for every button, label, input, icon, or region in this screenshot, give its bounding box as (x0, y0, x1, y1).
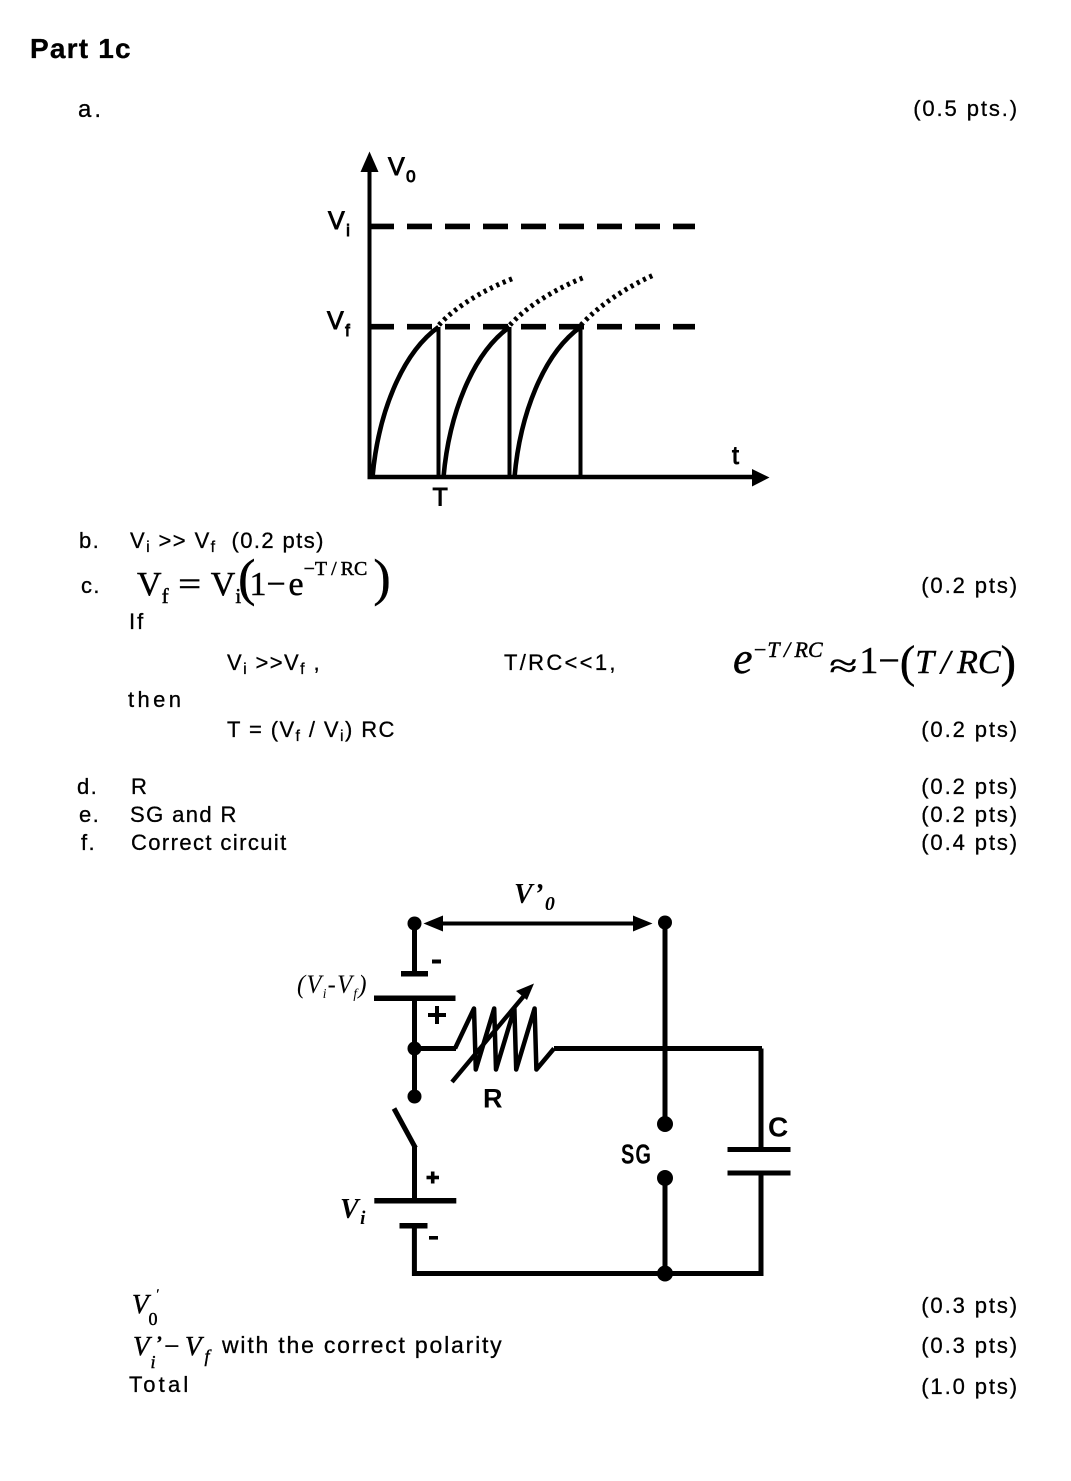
svg-text:Vi: Vi (328, 207, 351, 240)
wire down to capacitor (759, 1049, 764, 1148)
battery B2 Vi long plate (positive) (374, 1198, 456, 1204)
wire spark-gap branch from top-right node (663, 928, 668, 1124)
svg-text:Vi: Vi (340, 1194, 367, 1229)
wire battery B1 to node A (412, 1001, 417, 1049)
plus sign B1 (428, 1006, 446, 1024)
spark gap SG top electrode (657, 1116, 673, 1132)
svg-text:T: T (433, 484, 450, 512)
t axis (horizontal) (368, 469, 770, 487)
wire node A down to switch (412, 1049, 417, 1097)
drop line 1 (437, 327, 441, 477)
V'0 measurement double arrow (424, 916, 653, 932)
svg-text:Vf: Vf (327, 307, 351, 340)
wire SG to bottom rail (663, 1178, 668, 1274)
minus sign B1 (432, 960, 441, 964)
charging curve 3 (515, 327, 581, 477)
wire battery B2 to bottom rail (412, 1228, 417, 1276)
minus sign B2 (429, 1236, 438, 1240)
Vf dashed level line (369, 324, 695, 330)
Vi dashed level line (369, 224, 695, 230)
condition row (227, 650, 321, 679)
charging curve 1 (373, 327, 439, 477)
capacitor C top plate (728, 1147, 791, 1152)
wire top-left down to battery B1 (412, 928, 417, 971)
charging curve 2 (444, 327, 510, 477)
T = (Vf/Vi) RC (227, 717, 396, 746)
drop line 3 (579, 327, 583, 477)
capacitor C bottom plate (728, 1171, 791, 1176)
dotted continuation 1 (439, 278, 516, 326)
dotted continuation 2 (510, 277, 586, 325)
e^-T/RC approx 1-(T/RC) (733, 633, 1016, 688)
svg-text:t: t (732, 442, 740, 470)
arrow through resistor (variable) (452, 984, 534, 1083)
wire capacitor to bottom rail (759, 1176, 764, 1277)
spark gap SG bottom electrode (657, 1170, 673, 1186)
If (129, 609, 145, 635)
svg-text:SG: SG (621, 1139, 652, 1170)
dotted continuation 3 (581, 275, 655, 326)
then (128, 687, 184, 713)
item a (78, 96, 104, 124)
item d (77, 774, 98, 800)
V0 axis (vertical) (361, 152, 379, 480)
Vi'-Vf result line (133, 1331, 210, 1367)
CIRCUIT SVG (280, 870, 810, 1290)
item c : formula Vf = Vi(1-e^-T/RC) (81, 573, 101, 599)
variable resistor R zigzag (455, 1009, 554, 1070)
wire resistor to capacitor branch (554, 1046, 762, 1051)
GRAPH SVG (300, 140, 780, 525)
plus sign B2 (427, 1172, 440, 1184)
node A (408, 1042, 422, 1056)
item b (79, 528, 100, 554)
battery B1 long plate (positive) (374, 996, 456, 1002)
heading (30, 33, 132, 65)
svg-text:(Vi-Vf): (Vi-Vf) (297, 971, 368, 1001)
Total line (129, 1372, 191, 1398)
svg-text:R: R (483, 1084, 504, 1114)
label (Vi-Vf) (297, 971, 368, 1001)
switch blade (open) (394, 1109, 416, 1149)
switch contact node (408, 1090, 422, 1104)
wire switch to battery B2 (412, 1147, 417, 1198)
junction node bottom (657, 1266, 673, 1282)
drop line 2 (508, 327, 512, 477)
svg-text:C: C (768, 1112, 790, 1143)
V'0 result line (132, 1289, 164, 1320)
battery B2 short plate (negative) (400, 1223, 428, 1229)
battery B1 (Vi-Vf) short plate (negative) (401, 971, 428, 977)
node top-right (658, 916, 672, 930)
item f (81, 830, 96, 856)
bottom rail wire (412, 1271, 764, 1276)
node top-left (408, 917, 422, 931)
item e (79, 802, 100, 828)
svg-text:V’0: V’0 (514, 879, 556, 915)
svg-text:V0: V0 (388, 153, 417, 186)
wire node A to resistor (415, 1046, 457, 1051)
